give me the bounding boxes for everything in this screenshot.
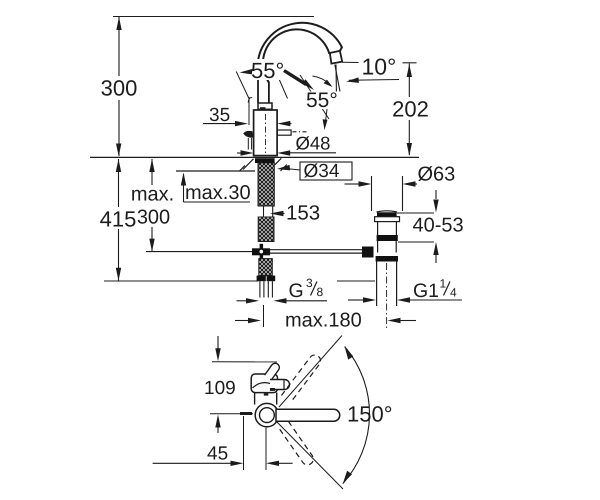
svg-text:1: 1 (440, 277, 447, 291)
dimension max.300 vertical (146, 159, 252, 252)
109 top reference line (212, 361, 277, 363)
waste flange (375, 217, 400, 222)
lever pivot right (277, 130, 309, 135)
dimension 40-53 (397, 190, 439, 263)
braided hose lower (259, 259, 273, 276)
collar dark detail (260, 107, 266, 110)
faucet body (254, 110, 278, 156)
waste body (378, 241, 397, 253)
waste cap (377, 211, 398, 212)
dashed handle lower (279, 421, 314, 465)
dashed handle upper (281, 355, 320, 402)
dimension 202 (403, 63, 417, 156)
dimension max.180 (235, 318, 416, 323)
55deg-2 leader (325, 109, 327, 126)
svg-text:max.180: max.180 (285, 310, 362, 332)
svg-text:150°: 150° (347, 402, 393, 427)
max.300 bottom reference line (146, 251, 252, 253)
braided hose middle (258, 217, 274, 242)
water stream lines (335, 65, 342, 104)
plan lever (270, 380, 290, 390)
dimension G1 1/4 (348, 297, 462, 302)
svg-text:Ø34: Ø34 (304, 161, 340, 182)
dimension 415 vertical (104, 159, 375, 281)
150deg arc (343, 347, 370, 484)
150deg arc arrows (345, 347, 354, 360)
dimension D48 (237, 150, 336, 155)
svg-text:415: 415 (100, 207, 137, 232)
shank locknut (255, 158, 275, 163)
svg-text:55°: 55° (251, 58, 284, 83)
max.180 left extension line (263, 305, 265, 327)
55deg-1 left thick arrow (240, 69, 253, 75)
flexible hoses (260, 281, 273, 297)
tailpipe (377, 262, 397, 307)
10deg leader top (342, 61, 359, 63)
waste o-ring (377, 235, 398, 241)
spout inner arc (263, 29, 329, 82)
55deg flank line right (300, 75, 329, 119)
55deg flank line mid (276, 72, 288, 99)
55deg flank line left (236, 72, 249, 100)
waste neck (378, 222, 397, 235)
D63 extension lines (372, 176, 403, 211)
spout outer arc (258, 23, 342, 65)
svg-text:40-53: 40-53 (413, 215, 464, 237)
svg-text:10°: 10° (362, 54, 397, 80)
svg-text:3: 3 (306, 276, 313, 290)
10deg curved arrow (313, 76, 331, 85)
svg-text:300: 300 (137, 207, 170, 229)
deck hatching (240, 158, 287, 171)
svg-text:153: 153 (286, 202, 320, 225)
lever tip thin outline below (248, 138, 251, 150)
nozzle aerator (330, 51, 343, 64)
label D34 boxed (277, 161, 352, 182)
svg-text:Ø48: Ø48 (296, 133, 331, 154)
label G3/8 (289, 276, 324, 302)
dimension 45 (153, 461, 293, 466)
svg-text:109: 109 (204, 378, 236, 399)
svg-text:55°: 55° (306, 89, 338, 112)
braided hose upper (258, 163, 274, 206)
plan neck (255, 393, 277, 405)
deck top line (90, 156, 419, 158)
hook detail (248, 98, 252, 103)
svg-text:300: 300 (101, 76, 138, 101)
svg-text:35: 35 (209, 105, 230, 126)
dimension 109 (215, 336, 220, 433)
spout riser tube (258, 63, 269, 103)
dimension 153 leader (270, 211, 283, 216)
plan spout tip (265, 363, 280, 380)
plan body internal arc (253, 383, 278, 388)
55deg flank vertical left (248, 97, 250, 125)
svg-text:202: 202 (392, 97, 429, 122)
415 bottom reference line (104, 280, 258, 282)
thick tick left of circle (240, 412, 252, 415)
plan neck tick (264, 393, 269, 395)
lower ring (376, 256, 398, 262)
dimension 300 vertical (116, 17, 122, 157)
top reference line (113, 16, 314, 18)
svg-text:45: 45 (207, 444, 228, 465)
pop-up rod (267, 250, 362, 253)
dimension G3/8 (237, 298, 328, 303)
hose connector nuts (257, 276, 266, 282)
150deg flank line upper (279, 336, 342, 408)
handle bar (276, 409, 340, 421)
label G1 1/4 (413, 277, 457, 303)
side inlet block (362, 247, 374, 258)
body centerline (265, 114, 267, 153)
tailpipe centerline (386, 263, 388, 328)
plan lever dark detail (270, 388, 275, 391)
10deg leader bottom with arrow (349, 79, 399, 82)
svg-text:4: 4 (450, 286, 457, 300)
plan body block (251, 374, 277, 393)
label 55 deg (first) (249, 59, 290, 80)
inner tube gap (264, 206, 273, 217)
body center reference line (210, 413, 253, 415)
dimension D63 (345, 181, 418, 186)
svg-text:8: 8 (317, 285, 324, 299)
escutcheon inner circle (260, 408, 275, 423)
svg-text:Ø63: Ø63 (418, 164, 456, 186)
label 55 deg (second) (303, 92, 343, 110)
escutcheon outer circle (255, 403, 278, 426)
150deg flank line lower (277, 422, 343, 489)
deck bottom line (176, 170, 255, 172)
lever grip end (left of body) (243, 131, 253, 138)
dimension max.30 flag (181, 173, 250, 203)
collar (258, 103, 272, 109)
svg-text:max.: max. (131, 184, 174, 206)
cross fitting (252, 248, 270, 255)
svg-text:max.30: max.30 (185, 182, 251, 204)
svg-text:G1: G1 (413, 280, 439, 302)
55deg-1 right thick stroke + arrow (284, 71, 306, 85)
45 extension lines (244, 416, 267, 470)
dimension 35 (203, 121, 292, 126)
svg-text:G: G (289, 280, 304, 302)
